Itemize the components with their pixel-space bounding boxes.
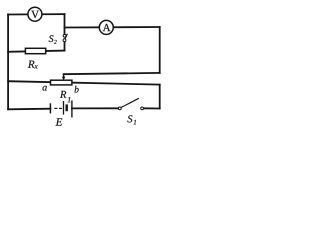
wire: switch S2 lower stub down to Rx wire xyxy=(64,41,66,50)
wire: vertical from voltmeter wire down to ammeter-wire junction xyxy=(64,14,66,34)
wire: rheostat rail xyxy=(8,81,160,84)
battery plate long right xyxy=(71,100,73,117)
switch S1 blade xyxy=(118,98,143,110)
battery plate long middle xyxy=(63,101,65,115)
wire: top voltmeter wire xyxy=(8,13,64,15)
voltmeter V xyxy=(28,7,42,21)
wire: right vertical upper (ammeter wire to slider wire) xyxy=(159,27,161,73)
wire: Rx horizontal wire xyxy=(8,51,64,52)
wire: right vertical lower (rheostat rail to bottom rail) xyxy=(159,85,161,109)
rheostat slider arrow xyxy=(62,74,66,80)
label b (rheostat right terminal) xyxy=(75,86,79,93)
wire: bottom rail battery to switch S1 xyxy=(72,107,119,109)
wire: ammeter horizontal wire xyxy=(65,26,160,29)
battery dashed link xyxy=(54,107,57,109)
label S2 xyxy=(49,35,57,44)
wire: bottom rail switch S1 to right vertical xyxy=(143,107,159,109)
label E xyxy=(56,118,63,125)
battery plate short thick xyxy=(65,104,67,111)
wire: slider wire xyxy=(64,73,160,74)
rheostat R1 box xyxy=(51,80,72,85)
label a (rheostat left terminal) xyxy=(42,86,46,91)
label Rx xyxy=(28,61,38,69)
battery E plate long left xyxy=(50,100,72,117)
resistor Rx box xyxy=(25,48,45,53)
wire: bottom rail left segment to battery xyxy=(8,108,50,111)
label S1 xyxy=(127,115,136,124)
ammeter A xyxy=(99,20,113,34)
label R1 (rheostat) xyxy=(60,91,70,102)
switch S2 xyxy=(63,34,67,42)
wire: left vertical rail xyxy=(7,14,9,109)
